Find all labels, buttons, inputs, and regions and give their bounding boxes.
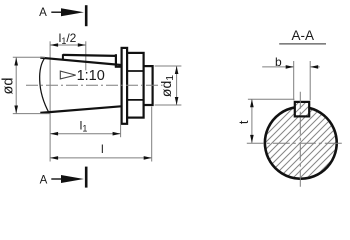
svg-text:A: A xyxy=(40,175,48,187)
dimension b leader left xyxy=(262,66,294,68)
dimension l1 line xyxy=(50,132,121,136)
threaded end xyxy=(144,66,153,105)
section arrow top xyxy=(51,8,84,16)
dimension od line xyxy=(14,58,18,114)
svg-text:b: b xyxy=(275,55,282,69)
key left face xyxy=(62,54,64,60)
svg-text:A-A: A-A xyxy=(291,28,314,43)
extension line l1 right xyxy=(120,124,122,137)
svg-text:1:10: 1:10 xyxy=(77,68,105,84)
dimension od extension top xyxy=(13,56,45,58)
shaft centerline (main view axis) xyxy=(26,84,163,86)
svg-text:t: t xyxy=(236,120,251,124)
key top edge xyxy=(63,55,116,56)
keyway in section xyxy=(295,102,309,117)
section hatching xyxy=(215,96,350,186)
section trace bottom xyxy=(85,167,88,188)
section arrow bottom xyxy=(51,175,84,183)
extension line A-A cut through key xyxy=(85,41,87,70)
dimension od1 extension bottom xyxy=(155,104,182,106)
dimension l line xyxy=(50,156,152,160)
shaft break line xyxy=(40,58,50,114)
cone bottom edge xyxy=(40,106,122,113)
washer xyxy=(122,48,128,124)
shaft section circle xyxy=(265,107,337,178)
dimension od1 extension top xyxy=(155,65,182,67)
dimension b extension left xyxy=(293,61,295,100)
dimension l1/2 line xyxy=(50,44,86,46)
section label underline xyxy=(279,43,326,45)
dimension b arrows xyxy=(286,65,294,69)
svg-text:l1: l1 xyxy=(80,118,88,133)
svg-text:ød1: ød1 xyxy=(158,75,176,97)
section horizontal centerline xyxy=(247,142,345,144)
nut chamfer line lower xyxy=(127,99,144,101)
dimension od extension bottom xyxy=(13,113,51,115)
dimension t line xyxy=(250,99,254,143)
dimension b leader right xyxy=(310,66,320,68)
svg-text:ød: ød xyxy=(1,78,17,95)
key right face xyxy=(115,54,117,67)
nut chamfer line upper xyxy=(127,70,144,72)
section vertical centerline xyxy=(299,92,301,187)
taper symbol triangle xyxy=(60,71,75,79)
dimension b extension right xyxy=(309,61,311,100)
keyway floor line xyxy=(115,66,123,68)
extension line l right xyxy=(151,107,153,162)
section trace top xyxy=(85,5,88,26)
svg-text:l: l xyxy=(101,142,104,156)
svg-text:A: A xyxy=(39,7,47,19)
cone top edge xyxy=(40,58,122,65)
dimension od1 line xyxy=(175,66,179,105)
svg-text:l1/2: l1/2 xyxy=(59,31,77,46)
dimension t extension top xyxy=(248,98,295,100)
nut body xyxy=(127,53,144,118)
extension line left (common for l1/2, l1, l) xyxy=(49,41,51,161)
